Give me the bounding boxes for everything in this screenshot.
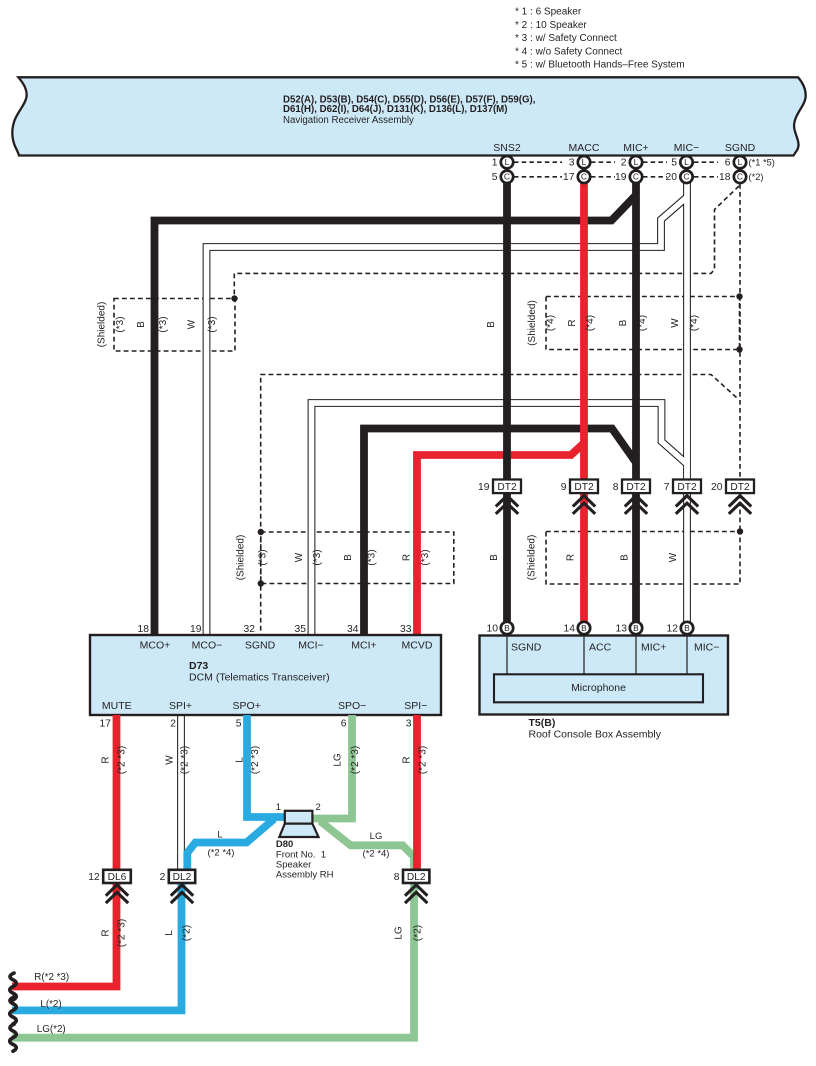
wire LG: D73 SPO- pin 6 to speaker [311, 715, 352, 819]
svg-text:MCO−: MCO− [192, 640, 223, 652]
wire L below DL2 to left edge [12, 883, 182, 1010]
svg-text:7: 7 [664, 482, 670, 493]
svg-text:(*3): (*3) [207, 316, 218, 332]
svg-text:R: R [566, 554, 577, 561]
connector DL2 pin 8 [403, 870, 429, 883]
svg-text:2: 2 [621, 158, 627, 169]
svg-text:DL2: DL2 [407, 872, 426, 883]
speaker D80 Front No.1 Speaker Assembly RH [279, 811, 318, 837]
connector DT2 pin 8 [622, 480, 650, 494]
svg-text:19: 19 [190, 624, 202, 635]
svg-text:DT2: DT2 [574, 482, 594, 493]
svg-text:(*3): (*3) [367, 549, 378, 565]
svg-text:5: 5 [236, 719, 242, 730]
svg-text:DL2: DL2 [173, 872, 192, 883]
svg-text:R: R [101, 929, 112, 936]
svg-text:L: L [634, 157, 639, 167]
svg-text:(*2 *3): (*2 *3) [250, 746, 261, 774]
connector DL2 pin 2 [169, 870, 195, 883]
svg-text:W: W [668, 552, 679, 562]
svg-text:B: B [633, 623, 639, 633]
svg-text:MCO+: MCO+ [140, 640, 171, 652]
white wire W: MIC- vertical to DT2 7 [683, 182, 691, 479]
wire B to T5 MIC+ [632, 493, 640, 623]
svg-text:MIC+: MIC+ [641, 642, 666, 654]
pin circles L/C MACC [578, 156, 590, 168]
svg-text:SPO+: SPO+ [233, 700, 261, 712]
svg-text:(*3): (*3) [420, 549, 431, 565]
wire R below DL6 to left edge [12, 883, 117, 987]
connector DT2 pin 9 [570, 480, 598, 494]
svg-text:(*2 *3): (*2 *3) [117, 746, 128, 774]
SGND shield drain wire (dashed) from pin 6/18 [739, 184, 741, 479]
svg-text:(*4): (*4) [689, 315, 700, 331]
svg-text:(*2 *3): (*2 *3) [180, 746, 191, 774]
svg-text:(*2): (*2) [413, 925, 424, 941]
microphone box [494, 674, 703, 702]
svg-text:* 4 : w/o Safety Connect: * 4 : w/o Safety Connect [515, 46, 623, 57]
svg-text:MCI−: MCI− [298, 640, 323, 652]
pin circles L/C MIC- [680, 156, 692, 168]
svg-text:B: B [486, 321, 497, 328]
pin circle B pin 14 [578, 622, 590, 634]
svg-text:B: B [618, 319, 629, 326]
connector DT2 pin 20 [726, 480, 754, 494]
svg-text:DT2: DT2 [677, 482, 697, 493]
shielded box 2 (right, *4) [546, 297, 740, 350]
svg-text:L(*2): L(*2) [40, 999, 61, 1010]
svg-text:B: B [504, 623, 510, 633]
svg-text:MCVD: MCVD [402, 640, 433, 652]
svg-text:Assembly RH: Assembly RH [276, 870, 334, 881]
svg-text:L: L [582, 157, 587, 167]
svg-text:(*2 *3): (*2 *3) [418, 746, 429, 774]
svg-text:9: 9 [561, 482, 567, 493]
svg-text:SNS2: SNS2 [493, 142, 521, 154]
svg-text:R: R [402, 554, 413, 561]
svg-text:2: 2 [170, 719, 176, 730]
svg-text:D61(H), D62(I), D64(J), D131(K: D61(H), D62(I), D64(J), D131(K), D136(L)… [283, 104, 507, 115]
pin circles L/C SGND [734, 156, 746, 168]
svg-text:(*3): (*3) [258, 549, 269, 565]
pin circles L/C MIC+ [630, 156, 642, 168]
svg-text:* 2 : 10 Speaker: * 2 : 10 Speaker [515, 20, 587, 31]
T5(B) Roof Console Box Assembly [480, 636, 729, 715]
svg-text:19: 19 [615, 172, 627, 183]
svg-text:12: 12 [88, 872, 100, 883]
svg-text:LG: LG [370, 831, 383, 842]
wire B: MIC+ branch to D73 MCO+ pin 18 [155, 195, 637, 635]
svg-text:B: B [684, 623, 690, 633]
svg-text:W: W [294, 552, 305, 562]
pin circle B pin 13 [630, 622, 642, 634]
svg-text:B: B [489, 554, 500, 561]
svg-text:Microphone: Microphone [571, 682, 626, 694]
svg-text:C: C [737, 172, 743, 182]
wire L branch to DL2 pin 2 [187, 819, 274, 870]
svg-text:32: 32 [244, 624, 256, 635]
svg-text:(*2): (*2) [182, 925, 193, 941]
wire B: MIC+ vertical [632, 183, 640, 479]
svg-text:(Shielded): (Shielded) [527, 535, 538, 581]
svg-text:LG: LG [333, 753, 344, 767]
svg-text:SPI+: SPI+ [169, 700, 192, 712]
svg-text:DT2: DT2 [497, 482, 517, 493]
svg-text:6: 6 [725, 158, 731, 169]
svg-text:14: 14 [564, 624, 576, 635]
wire R to T5 ACC [580, 493, 588, 623]
connector DT2 pin 7 [673, 480, 701, 494]
svg-text:20: 20 [711, 482, 723, 493]
svg-text:8: 8 [613, 482, 619, 493]
connector DL6 pin 12 [103, 870, 131, 883]
svg-text:L: L [738, 157, 743, 167]
svg-text:R: R [567, 319, 578, 326]
svg-text:2: 2 [160, 872, 166, 883]
shielded box 1 (MCO wires) [114, 299, 235, 352]
svg-text:SGND: SGND [245, 640, 276, 652]
ECU D73 DCM (Telematics Transceiver) [90, 635, 441, 715]
svg-text:(*2 *3): (*2 *3) [350, 746, 361, 774]
svg-text:B: B [343, 554, 354, 561]
svg-text:12: 12 [667, 624, 679, 635]
white wire W: D73 MCI- pin 35 to mic line [312, 403, 687, 635]
svg-text:MACC: MACC [569, 142, 600, 154]
svg-text:(*2 *3): (*2 *3) [117, 919, 128, 947]
svg-text:R(*2 *3): R(*2 *3) [34, 972, 69, 983]
shielded box 4 (microphone wires) [546, 532, 740, 585]
svg-text:* 5 : w/ Bluetooth Hands–Free: * 5 : w/ Bluetooth Hands–Free System [515, 60, 685, 71]
svg-text:L: L [505, 157, 510, 167]
wire R: D73 SPI- pin 3 to DL2 pin 8 [413, 715, 421, 870]
svg-text:(Shielded): (Shielded) [236, 535, 247, 581]
svg-text:SGND: SGND [511, 642, 542, 654]
svg-text:3: 3 [569, 158, 575, 169]
svg-text:B: B [620, 554, 631, 561]
svg-text:C: C [633, 172, 639, 182]
svg-text:C: C [504, 172, 510, 182]
pin circle B pin 10 [501, 622, 513, 634]
svg-text:B: B [136, 321, 147, 328]
svg-text:B: B [581, 623, 587, 633]
svg-text:(*3): (*3) [312, 549, 323, 565]
wire B: SNS2 vertical [503, 183, 511, 479]
svg-text:L: L [164, 930, 175, 936]
svg-text:DT2: DT2 [730, 482, 750, 493]
svg-text:Roof Console Box Assembly: Roof Console Box Assembly [529, 729, 662, 741]
svg-text:(*4): (*4) [546, 315, 557, 331]
svg-text:C: C [683, 172, 689, 182]
svg-text:5: 5 [492, 172, 498, 183]
svg-text:(*4): (*4) [637, 315, 648, 331]
wire B: D73 MCI+ pin 34 to mic line [364, 429, 636, 636]
svg-text:19: 19 [478, 482, 490, 493]
svg-text:SPI−: SPI− [404, 700, 427, 712]
svg-text:20: 20 [666, 172, 678, 183]
svg-text:R: R [402, 756, 413, 763]
svg-text:W: W [670, 318, 681, 328]
svg-text:D73: D73 [189, 660, 208, 672]
svg-text:LG(*2): LG(*2) [37, 1024, 66, 1035]
svg-text:13: 13 [616, 624, 628, 635]
svg-text:L: L [217, 830, 222, 841]
svg-text:5: 5 [671, 158, 677, 169]
svg-text:(*2 *4): (*2 *4) [363, 849, 390, 860]
svg-text:DL6: DL6 [108, 872, 127, 883]
svg-text:MUTE: MUTE [102, 700, 132, 712]
svg-text:L: L [235, 757, 246, 763]
svg-text:(*3): (*3) [115, 316, 126, 332]
svg-text:17: 17 [100, 719, 112, 730]
wire L: D73 SPO+ pin 5 to speaker [247, 715, 286, 817]
wire LG branch to DL2 pin 8 [320, 821, 414, 870]
svg-text:* 3 : w/ Safety Connect: * 3 : w/ Safety Connect [515, 33, 617, 44]
svg-text:* 1 : 6 Speaker: * 1 : 6 Speaker [515, 7, 582, 18]
svg-text:1: 1 [276, 802, 281, 813]
continuation squiggles and labels [10, 973, 17, 1000]
svg-text:(Shielded): (Shielded) [527, 300, 538, 346]
svg-text:6: 6 [341, 719, 347, 730]
pin circles L/C SNS2 [501, 156, 513, 168]
svg-text:(Shielded): (Shielded) [97, 302, 108, 348]
pin circle B pin 12 [681, 622, 693, 634]
wire R: D73 MCVD pin 33 joins MACC line [417, 443, 584, 635]
svg-text:Navigation Receiver Assembly: Navigation Receiver Assembly [283, 115, 414, 126]
wire LG below DL2 to left edge [12, 883, 414, 1038]
svg-text:T5(B): T5(B) [529, 717, 556, 729]
svg-text:8: 8 [394, 872, 400, 883]
svg-text:MCI+: MCI+ [351, 640, 376, 652]
svg-text:18: 18 [719, 172, 731, 183]
connector DT2 pin 19 [493, 480, 521, 494]
shield junction dots [231, 295, 237, 301]
svg-text:(*2): (*2) [749, 172, 764, 182]
svg-text:DCM (Telematics Transceiver): DCM (Telematics Transceiver) [189, 672, 330, 684]
svg-text:DT2: DT2 [626, 482, 646, 493]
svg-text:W: W [187, 319, 198, 329]
connector banner D52-D137 Navigation Receiver Assembly [12, 77, 805, 155]
svg-text:(*4): (*4) [585, 315, 596, 331]
wire B to T5 SGND [503, 493, 511, 623]
svg-text:R: R [101, 756, 112, 763]
svg-text:34: 34 [347, 624, 359, 635]
svg-text:18: 18 [138, 624, 150, 635]
svg-text:3: 3 [406, 719, 412, 730]
svg-text:17: 17 [563, 172, 575, 183]
svg-text:2: 2 [316, 802, 321, 813]
svg-text:W: W [164, 755, 175, 765]
svg-text:MIC−: MIC− [694, 642, 719, 654]
wire R: D73 MUTE pin 17 down [113, 715, 121, 870]
svg-text:SPO−: SPO− [338, 700, 366, 712]
svg-text:SGND: SGND [725, 142, 756, 154]
svg-text:(*1 *5): (*1 *5) [749, 158, 775, 168]
svg-text:33: 33 [400, 624, 412, 635]
svg-text:MIC+: MIC+ [623, 142, 648, 154]
svg-text:(*3): (*3) [158, 316, 169, 332]
SGND dashed horizontal to D73 pin 32 [261, 375, 737, 636]
svg-text:LG: LG [394, 926, 405, 940]
svg-text:ACC: ACC [589, 642, 612, 654]
svg-text:(*2 *4): (*2 *4) [208, 848, 235, 859]
svg-text:35: 35 [295, 624, 307, 635]
svg-text:MIC−: MIC− [674, 142, 699, 154]
wire R: MACC vertical [580, 183, 588, 479]
svg-text:L: L [684, 157, 689, 167]
svg-text:1: 1 [492, 158, 498, 169]
svg-text:C: C [581, 172, 587, 182]
navigation connector pins [514, 161, 562, 163]
svg-text:10: 10 [487, 624, 499, 635]
shielded box 3 (MCI wires) [261, 532, 454, 584]
